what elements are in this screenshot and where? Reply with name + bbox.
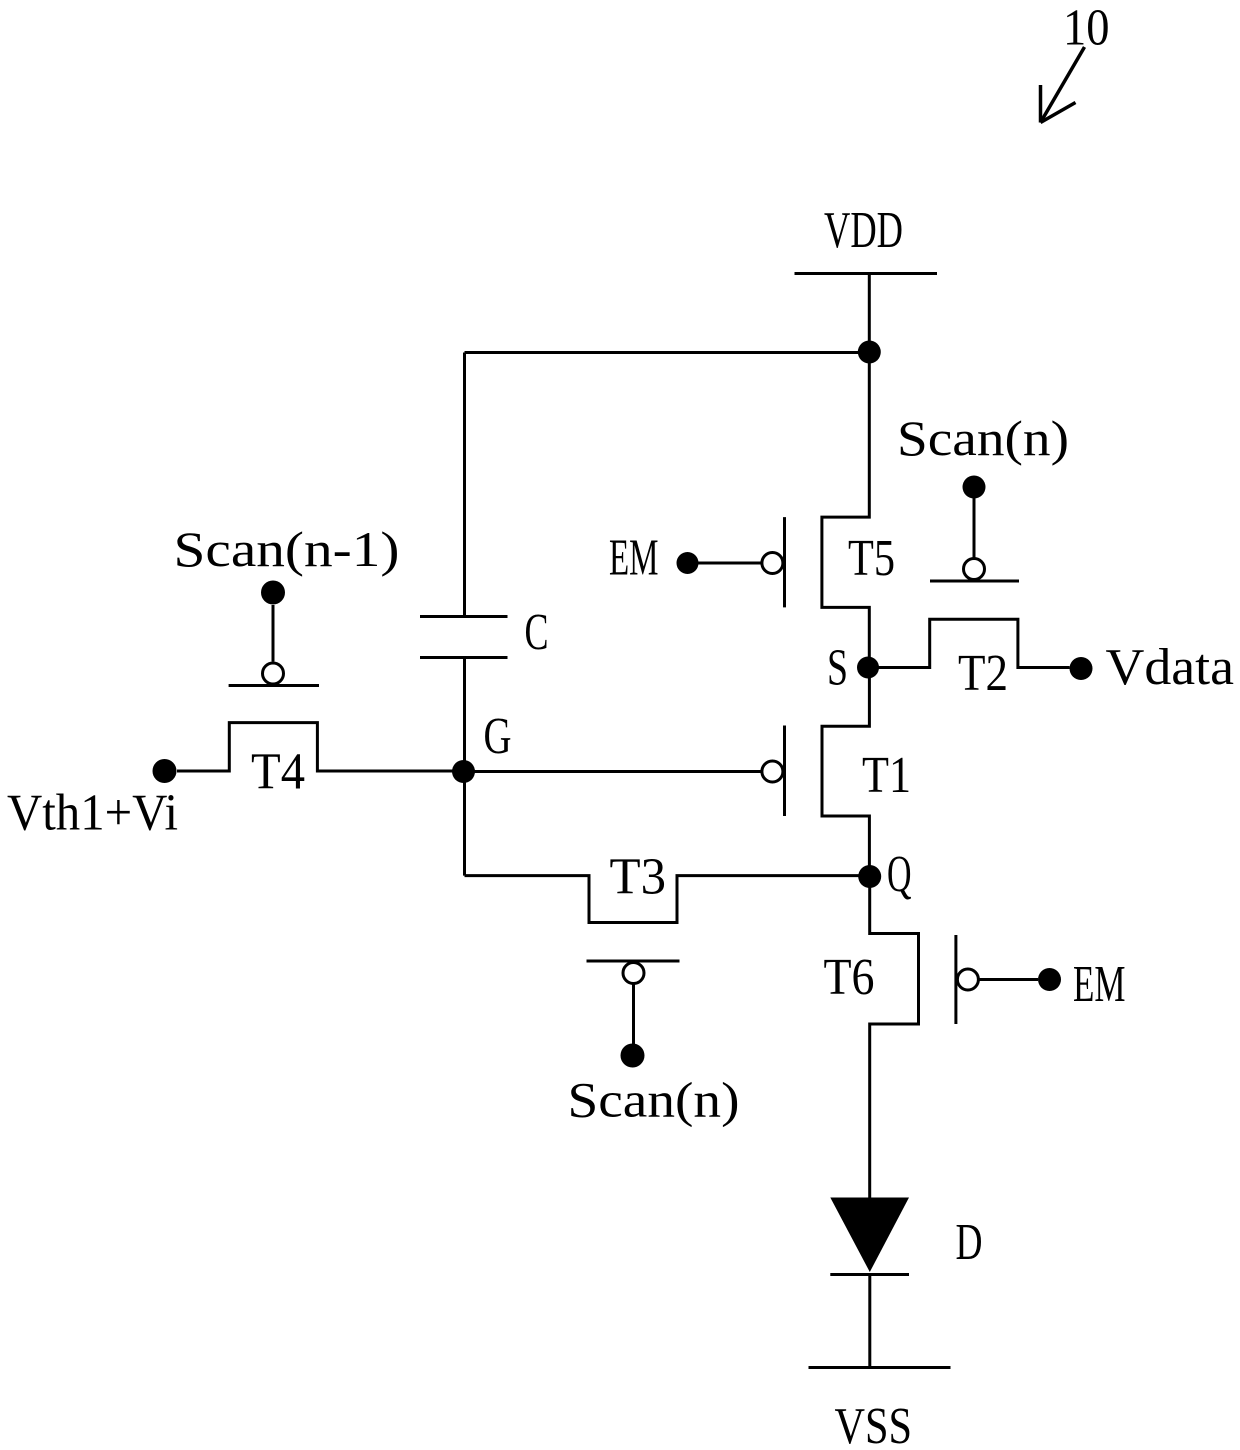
wire diode to VSS — [868, 1275, 871, 1368]
svg-text:T2: T2 — [958, 645, 1008, 702]
node junction at VDD branch — [858, 341, 881, 364]
power VSS label — [835, 1398, 913, 1450]
wire Scan(n-1) to T4 gate — [272, 605, 275, 662]
net label EM (left) — [609, 530, 659, 587]
svg-text:Vdata: Vdata — [1106, 639, 1235, 696]
transistor T1 channel — [822, 668, 869, 877]
transistor T4 gate bar — [229, 684, 319, 687]
terminal dot EM (left) — [677, 552, 699, 574]
svg-text:S: S — [827, 640, 848, 697]
transistor T1 gate bubble — [762, 761, 783, 782]
transistor T2 label — [958, 645, 1008, 702]
svg-text:T1: T1 — [862, 747, 911, 804]
svg-text:G: G — [484, 708, 512, 765]
transistor T6 channel — [870, 877, 919, 1198]
transistor T2 channel — [868, 619, 1070, 667]
transistor T5 gate bar — [783, 517, 786, 607]
terminal dot Scan(n) bottom — [621, 1044, 645, 1068]
node G label — [484, 708, 512, 765]
svg-text:T5: T5 — [848, 530, 895, 587]
transistor T5 label — [848, 530, 895, 587]
power VSS rail — [809, 1366, 951, 1369]
net label Vth1+Vi — [7, 785, 178, 842]
svg-text:VSS: VSS — [835, 1398, 913, 1450]
transistor T2 gate bubble — [964, 559, 985, 580]
transistor T3 channel — [465, 876, 870, 923]
transistor T6 label — [824, 949, 875, 1006]
wire VDD stem and transistor T5 channel — [822, 274, 869, 668]
net label Scan(n-1) — [174, 521, 400, 577]
wire EM to T5 gate — [698, 562, 761, 565]
transistor T2 gate bar — [930, 580, 1019, 583]
transistor T1 label — [862, 747, 911, 804]
power VDD rail — [795, 272, 938, 275]
transistor T4 gate bubble — [263, 663, 284, 684]
terminal dot Scan(n-1) — [261, 581, 285, 605]
wire capacitor top lead — [463, 353, 466, 617]
transistor T3 gate bar — [587, 960, 680, 963]
svg-text:Scan(n-1): Scan(n-1) — [174, 521, 400, 577]
terminal dot Vdata — [1070, 657, 1093, 680]
node S label — [827, 640, 848, 697]
net label Scan(n) top right — [897, 410, 1069, 466]
transistor T5 gate bubble — [762, 553, 783, 574]
svg-text:Scan(n): Scan(n) — [568, 1072, 740, 1128]
transistor T1 gate bar — [783, 726, 786, 817]
terminal dot Vth1+Vi — [153, 759, 177, 783]
svg-text:T6: T6 — [824, 949, 875, 1006]
net label EM (right) — [1073, 956, 1126, 1013]
diode D label — [956, 1214, 983, 1271]
terminal dot Scan(n) top right — [963, 476, 986, 499]
net label Vdata — [1106, 639, 1235, 696]
svg-text:EM: EM — [1073, 956, 1126, 1013]
wire node G to T1 gate — [465, 770, 762, 773]
wire capacitor bottom lead to node G down to T3 — [463, 658, 466, 876]
transistor T6 gate bubble — [957, 969, 978, 990]
svg-text:T3: T3 — [610, 849, 667, 906]
diode D cathode bar — [830, 1273, 909, 1276]
wire from VDD junction to capacitor top — [465, 351, 870, 354]
svg-text:D: D — [956, 1214, 983, 1271]
node S dot — [857, 657, 879, 679]
svg-text:EM: EM — [609, 530, 659, 587]
label 10 — [1063, 0, 1110, 57]
wire Scan(n) to T2 gate — [973, 498, 976, 559]
power VDD label — [824, 202, 903, 259]
svg-text:Vth1+Vi: Vth1+Vi — [7, 785, 178, 842]
svg-text:T4: T4 — [251, 744, 305, 801]
svg-text:VDD: VDD — [824, 202, 903, 259]
transistor T6 gate bar — [954, 935, 957, 1024]
transistor T4 label — [251, 744, 305, 801]
svg-text:C: C — [525, 604, 549, 661]
svg-text:Scan(n): Scan(n) — [897, 410, 1069, 466]
node Q label — [887, 846, 912, 903]
capacitor C value label — [525, 604, 549, 661]
wire T3 gate to Scan(n) — [632, 984, 635, 1044]
capacitor C plates — [420, 617, 508, 658]
svg-text:10: 10 — [1063, 0, 1110, 57]
diode D anode triangle — [830, 1198, 909, 1273]
terminal dot EM (right) — [1038, 968, 1061, 991]
transistor T4 channel — [177, 723, 464, 771]
node G dot — [452, 760, 475, 783]
transistor T3 label — [610, 849, 667, 906]
transistor T3 gate bubble — [623, 963, 644, 984]
node Q dot — [858, 865, 881, 888]
arrow to 10 — [1041, 47, 1085, 123]
wire T6 gate to EM — [979, 978, 1038, 981]
svg-text:Q: Q — [887, 846, 912, 903]
net label Scan(n) bottom — [568, 1072, 740, 1128]
